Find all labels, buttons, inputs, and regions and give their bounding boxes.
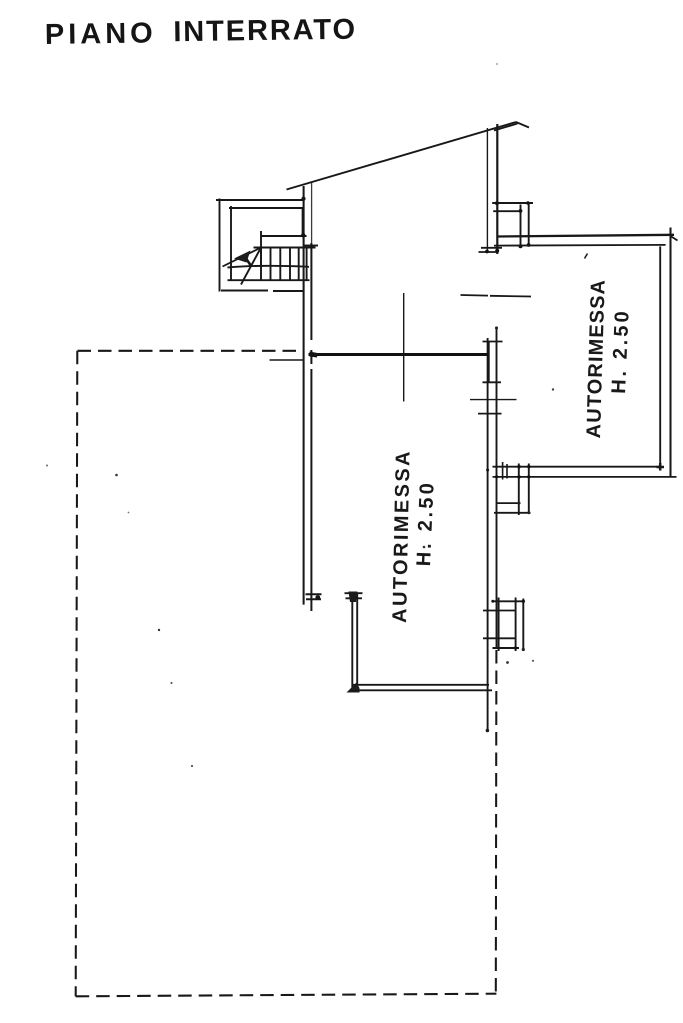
main wall middle right line [496,327,498,649]
door opening dashed line [461,295,532,297]
box B corner dot bottom-right [522,648,525,651]
hash mark at wall end [306,594,322,599]
upper right wall (left line) [486,128,488,252]
ramp diagonal line [287,122,517,190]
ink speck 1 [158,629,160,631]
wall top dot [495,327,498,330]
stair arrow head [234,251,251,263]
garage2 right wall outer [669,228,671,478]
dashed boundary bottom edge [76,994,497,997]
junction ticks at garage2 bottom wall [503,462,507,480]
staircase inner top wall [229,207,304,209]
pillar box on garage2 bottom wall verticals [519,464,529,516]
west wall of garage (right line) [311,183,313,243]
garage inner wall vertical (double) [352,594,357,690]
blob top of inner wall [349,592,358,603]
stair landing bottom wall [262,235,307,237]
dashed boundary top edge [78,350,297,352]
svg-text:H. 2.50: H. 2.50 [608,308,634,394]
svg-text:AUTORIMESSA: AUTORIMESSA [389,449,415,623]
svg-text:H. 2.50: H. 2.50 [413,480,439,567]
pillar box top-right (above garage2) [492,203,533,211]
ink speck A [46,465,48,467]
wall end ticks [479,248,503,252]
stair tread top line [254,247,316,249]
ink speck C [128,512,130,514]
upper right wall (right line) [496,124,498,254]
arrow head extra blob [246,259,252,267]
svg-text:INTERRATO: INTERRATO [173,14,357,49]
corner plus bottom-right [657,463,665,471]
west wall of garage (left line) [303,186,305,605]
door jamb tick 3 long [470,399,517,401]
pillar box on garage2 bottom wall horizontals [494,503,531,513]
ramp apex tick [516,122,529,128]
stair right wall segment [306,248,308,281]
pillar box corner dots [522,600,525,603]
staircase outer left wall [219,199,221,292]
stair treads [261,248,299,281]
ink speck D [532,660,534,662]
blob bottom of inner wall [347,683,360,693]
stair lower diagonal [241,248,261,285]
staircase inner left wall [230,206,232,280]
pillar box verticals [499,598,524,652]
ink speck 4 [506,661,509,664]
junction blob at thick wall start [310,352,318,358]
door jamb inner line [488,342,490,384]
pillar box verticals [521,202,529,247]
ink speck 3 [423,546,426,549]
dashed boundary left edge [76,351,78,997]
wall junction blobs [301,197,314,249]
door jamb tick 1 [483,341,503,343]
garage bottom wall upper line [353,684,490,686]
ink speck 7 [585,254,588,259]
pillar box plus blobs [485,201,530,253]
west wall right line lower [310,243,312,611]
box C crossing blobs [486,465,530,479]
staircase outer top wall [216,199,303,201]
short line left of thick wall [270,359,304,361]
stair arrow shaft [223,248,262,267]
wall end dot [486,729,490,733]
staircase outer bottom wall [221,290,303,293]
box C corner dots [517,502,520,505]
ramp diagonal second segment [494,124,518,131]
centerline vertical [403,293,405,402]
garage2 right wall inner [659,246,661,467]
garage2 top wall upper line [497,235,674,237]
staircase inner right wall [302,208,304,236]
garage2 bottom wall lower line [493,476,677,478]
door jamb tick 2 [483,381,502,383]
svg-text:PIANO: PIANO [45,17,157,51]
pillar box on wall (lower) top [493,601,525,648]
hash mark top of inner wall [345,593,363,598]
stair newel post line [260,231,262,266]
title PIANO INTERRATO [45,14,358,51]
thick garage top wall [309,353,488,356]
dashed boundary right edge [495,650,498,994]
stair tread bottom line [228,279,310,281]
garage2 top wall lower line [494,244,666,247]
pillar box inner horizontals [483,611,516,639]
ink speck 5 [552,388,554,390]
door jamb tick 4 [478,413,502,415]
garage bottom wall lower line [352,689,493,691]
corner tick top-right [671,236,678,241]
ink speck F [496,63,498,65]
ink speck 2 [171,682,173,684]
ink speck E [191,765,193,767]
ink speck B [115,474,118,477]
garage2 bottom wall upper line [493,466,662,468]
hash blob [315,595,320,600]
main wall middle left line [487,338,489,730]
stair mid line [228,266,310,268]
wall T tick at stair right [304,245,319,247]
